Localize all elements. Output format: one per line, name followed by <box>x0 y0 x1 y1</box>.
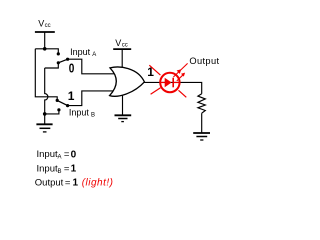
svg-text:Input: Input <box>70 47 91 57</box>
LED emission arrow 1 + Output leader <box>173 63 187 77</box>
power Vcc V1 (switch side) label <box>38 18 50 29</box>
svg-text:Input: Input <box>69 107 90 117</box>
or-gate U1 body <box>110 67 145 96</box>
LED emission arrow 2 <box>177 75 183 81</box>
power Vcc V2 bar <box>113 48 131 50</box>
wire: gate ground lead <box>122 95 124 116</box>
LED circle <box>160 73 179 92</box>
wire: gate output to resistor corner <box>144 82 202 93</box>
switch A pole dot <box>66 58 69 61</box>
svg-text:cc: cc <box>45 23 51 29</box>
power Vcc V2 lead to gate <box>121 49 123 69</box>
switch A lower contact dot <box>57 61 60 64</box>
wire: switch B pole to gate lower input <box>68 91 115 106</box>
svg-text:=: = <box>64 149 70 160</box>
caption line 3: Output = 1 (light!) <box>35 178 114 189</box>
svg-text:V: V <box>115 38 121 48</box>
svg-text:1: 1 <box>68 89 75 103</box>
switch B upper contact dot <box>56 99 59 102</box>
light ray lower-right <box>179 90 187 97</box>
light ray upper-left <box>149 65 160 75</box>
caption line 1: Input A = 0 <box>37 149 77 160</box>
svg-text:B: B <box>91 112 95 118</box>
svg-text:A: A <box>92 52 96 58</box>
svg-text:=: = <box>65 178 71 189</box>
svg-text:B: B <box>58 169 62 175</box>
svg-text:(light!): (light!) <box>82 178 114 189</box>
wire: ground wire to switch B lower contact <box>45 111 59 114</box>
switch B pole dot <box>66 104 69 107</box>
power Vcc V1 bar <box>35 31 55 33</box>
svg-text:Output: Output <box>189 56 219 66</box>
ground (gate) <box>115 115 132 121</box>
svg-text:=: = <box>64 163 70 174</box>
LED D1 (lit) <box>149 63 187 97</box>
svg-text:Input: Input <box>37 163 58 174</box>
svg-text:Input: Input <box>37 149 58 160</box>
switch A upper contact dot <box>57 52 60 55</box>
junction dot at ground junction <box>43 112 47 116</box>
wire: resistor to ground <box>201 113 203 133</box>
svg-text:1: 1 <box>73 178 79 189</box>
wire: ground lead down <box>44 114 46 124</box>
svg-text:A: A <box>58 155 62 161</box>
wire: inner rail (ground) with hop over Vcc wire <box>45 68 48 114</box>
label Input B <box>69 107 95 118</box>
LED internal leads <box>161 82 165 84</box>
caption line 2: Input B = 1 <box>37 163 77 174</box>
wire: switch A pole to gate upper input <box>68 59 116 74</box>
wire: switch A lower contact to inner rail <box>45 63 59 68</box>
LED cathode bar <box>172 78 174 88</box>
power Vcc V1 lead <box>44 32 46 49</box>
ground (switch side) <box>36 124 52 132</box>
switch B lower contact dot <box>57 108 60 111</box>
ground (resistor) <box>193 133 210 140</box>
wire: outer rail (Vcc down the left side) to switch B upper contact <box>35 49 57 99</box>
label Input A <box>70 47 96 58</box>
light ray lower-left <box>151 88 161 95</box>
resistor R1 <box>198 94 205 113</box>
svg-text:1: 1 <box>71 164 77 175</box>
junction dot at Vcc tap <box>43 47 47 51</box>
switch B lever (thrown to 1 / Vcc) <box>57 100 67 105</box>
power Vcc V2 (gate) label <box>115 38 127 49</box>
LED anode triangle <box>165 78 172 88</box>
svg-text:0: 0 <box>69 62 75 75</box>
svg-text:V: V <box>38 18 44 28</box>
svg-text:cc: cc <box>122 42 128 48</box>
svg-text:Output: Output <box>35 178 64 189</box>
svg-text:0: 0 <box>71 149 77 160</box>
switch A lever (thrown to 0 / ground) <box>58 59 67 63</box>
wire: top rail from outer rail to switch A upper contact <box>35 49 58 53</box>
